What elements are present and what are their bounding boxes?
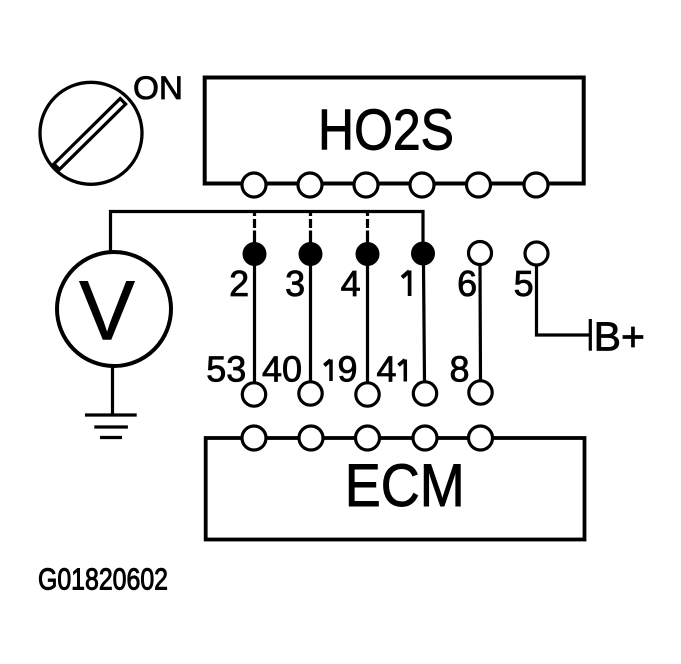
ground symbol: [85, 415, 137, 438]
svg-text:4: 4: [376, 349, 396, 390]
ECM pin label 19: [324, 349, 357, 390]
HO2S connector pin circle (pin 2): [242, 173, 266, 197]
ignition switch key slot: [54, 99, 126, 170]
svg-text:V: V: [79, 263, 135, 357]
HO2S module box: [205, 78, 584, 184]
wire node6 to ECM terminal 8: [478, 264, 482, 381]
HO2S connector pin circle (pin 1): [410, 173, 434, 197]
harness terminal circle 19: [356, 383, 379, 406]
bus wire from voltmeter across pins: [111, 212, 424, 253]
wire voltmeter to ground: [111, 366, 114, 415]
svg-text:5: 5: [514, 263, 534, 304]
HO2S connector pin circle (pin 4): [354, 173, 378, 197]
svg-text:G01820602: G01820602: [38, 563, 168, 597]
svg-text:6: 6: [457, 263, 477, 304]
ECM connector circle 5: [469, 426, 493, 450]
ECM box: [206, 438, 585, 540]
svg-text:HO2S: HO2S: [318, 99, 454, 163]
svg-text:ON: ON: [133, 70, 183, 106]
svg-text:ECM: ECM: [345, 451, 465, 519]
svg-text:4: 4: [341, 263, 361, 304]
terminal circle node 5: [525, 242, 548, 265]
harness terminal circle 8: [469, 381, 492, 404]
dashed probe wire to node 4: [366, 213, 369, 243]
dashed probe wire to node 2: [253, 213, 256, 243]
B+ terminal bar: [589, 319, 592, 351]
label ON: [133, 70, 183, 106]
figure id G01820602: [38, 563, 168, 597]
wire node5 to B+: [537, 265, 590, 336]
voltmeter label V: [79, 263, 135, 357]
wire node2 to ECM terminal 53: [253, 265, 256, 383]
junction dot node 4: [356, 242, 380, 266]
harness terminal circle 41: [413, 382, 436, 405]
harness terminal circle 40: [299, 382, 322, 405]
label HO2S: [318, 99, 454, 163]
dashed probe wire to node 3: [309, 213, 312, 243]
voltmeter V1 circle: [57, 252, 171, 366]
ignition switch S1 (circle): [40, 82, 142, 184]
svg-text:3: 3: [285, 263, 305, 304]
ECM connector circle 1: [242, 426, 266, 450]
junction dot node 3: [299, 242, 323, 266]
ECM pin label 41: [376, 349, 405, 390]
junction dot node 1: [411, 242, 435, 266]
ECM connector circle 3: [356, 426, 380, 450]
svg-text:53: 53: [206, 349, 246, 390]
HO2S connector pin circle (pin 3): [298, 173, 322, 197]
junction dot node 2: [243, 242, 267, 266]
svg-text:8: 8: [449, 349, 469, 390]
label ECM: [345, 451, 465, 519]
svg-text:B+: B+: [594, 314, 645, 360]
wire node4 to ECM terminal 19: [366, 265, 369, 383]
pin number label 1: [402, 271, 410, 297]
ECM connector circle 4: [413, 426, 437, 450]
wire node1 to ECM terminal 41: [424, 265, 425, 382]
svg-text:2: 2: [229, 263, 249, 304]
terminal circle node 6: [469, 242, 492, 265]
HO2S connector pin circle (pin 6): [467, 173, 491, 197]
svg-text:40: 40: [262, 349, 302, 390]
ECM connector circle 2: [299, 426, 323, 450]
wire node3 to ECM terminal 40: [309, 265, 312, 382]
HO2S connector pin circle (pin 5): [524, 173, 548, 197]
harness terminal circle 53: [242, 383, 265, 406]
svg-text:9: 9: [337, 349, 357, 390]
